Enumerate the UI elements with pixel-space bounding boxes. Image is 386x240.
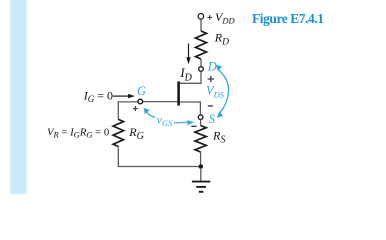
ground xyxy=(192,168,210,192)
left margin stripe xyxy=(10,0,27,194)
svg-text:VDD: VDD xyxy=(215,10,235,26)
wire: RD bottom to node D xyxy=(200,59,202,67)
junction dot xyxy=(199,164,204,169)
resistor RS xyxy=(195,126,206,152)
current arrow IG xyxy=(113,94,135,98)
vGS pointer arrows (cyan) xyxy=(146,112,189,123)
svg-text:D: D xyxy=(207,60,217,74)
transistor Q channel bar xyxy=(177,81,180,105)
svg-text:vGS: vGS xyxy=(157,115,173,128)
label + VDD xyxy=(207,15,212,20)
polarity - of vGS xyxy=(191,125,196,127)
VDS arc arrow (cyan) xyxy=(217,69,228,115)
wire: transistor source to node S xyxy=(180,102,201,115)
node S (open circle) xyxy=(198,115,203,120)
wire: RS bottom to junction xyxy=(200,152,202,167)
wire: node S to RS xyxy=(200,120,202,126)
svg-text:VR = IGRG = 0: VR = IGRG = 0 xyxy=(47,126,109,139)
resistor RG xyxy=(113,119,123,146)
node D (open circle) xyxy=(199,67,204,72)
wire: node G to transistor gate xyxy=(143,101,178,103)
VDD terminal (open circle) xyxy=(198,13,204,19)
svg-text:RS: RS xyxy=(212,129,225,146)
polarity + of vGS xyxy=(133,106,138,111)
svg-text:Figure E7.4.1: Figure E7.4.1 xyxy=(252,11,324,26)
wire: node G left then down to RG xyxy=(118,102,138,120)
svg-text:S: S xyxy=(209,112,216,126)
current arrow ID xyxy=(186,44,190,65)
svg-text:G: G xyxy=(137,84,146,98)
wire: VDD terminal to RD top xyxy=(200,19,202,31)
polarity + of vDS xyxy=(208,76,214,82)
svg-text:ID: ID xyxy=(179,65,192,83)
polarity - of vDS xyxy=(208,105,213,107)
svg-text:RG: RG xyxy=(128,125,144,142)
wire: node D down and left to transistor drain xyxy=(180,71,202,83)
node G (open circle) xyxy=(138,99,143,104)
svg-text:VDS: VDS xyxy=(206,84,225,100)
resistor RD xyxy=(196,31,207,59)
svg-text:IG = 0: IG = 0 xyxy=(83,88,113,104)
wire: bottom rail xyxy=(118,166,201,168)
wire: RG bottom to bottom rail xyxy=(117,147,119,168)
svg-text:RD: RD xyxy=(214,31,229,48)
